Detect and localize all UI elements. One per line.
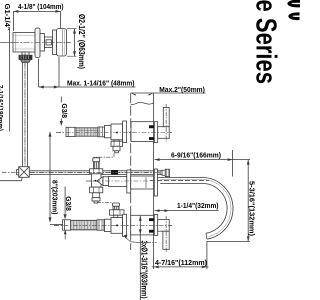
bottom handle stem <box>158 220 170 232</box>
valve V1 horizontal centerline <box>0 41 72 43</box>
middle tee lower hex nut <box>90 187 103 193</box>
middle valve centerline <box>86 180 150 182</box>
dimension 8in (203mm) vertical <box>49 131 64 224</box>
cut-off glyph mark 2 (top right corner) <box>288 12 299 20</box>
bottom valve top fitting <box>110 203 125 218</box>
valve V1 body (wall-mount bath valve, side view) <box>13 33 35 53</box>
middle tee lower nut <box>92 198 100 201</box>
middle tee lower block <box>93 193 100 198</box>
middle valve flange <box>127 170 131 193</box>
bottom handle bar <box>163 231 169 249</box>
supply pipe from valve V1 going down <box>23 52 28 167</box>
route centerline from top valve to tee <box>94 153 115 157</box>
top assembly centerline <box>56 132 172 134</box>
MIDDLE TEE cap <box>93 158 100 169</box>
label G3/8 (top assembly) with leader <box>60 97 69 127</box>
valve V1 second disc <box>53 30 57 55</box>
top handle stem <box>158 127 170 139</box>
svg-text:4-7/16"(112mm): 4-7/16"(112mm) <box>155 258 207 267</box>
route centerline tee to bottom valve <box>97 202 113 204</box>
supply pipe centerline <box>24 54 26 166</box>
valve V1 knob cap <box>57 29 67 57</box>
middle tee tail tip <box>94 201 98 203</box>
top in-wall housing <box>131 122 154 142</box>
leader line from G1-1/4 down to supply elbow <box>9 28 11 132</box>
valve V1 collar <box>40 34 45 52</box>
dimension 6-9/16in(166mm) <box>155 150 250 177</box>
bottom housing socket bands <box>149 218 155 221</box>
valve V1 mid section <box>45 37 53 48</box>
dimension Max.2in(50mm) wall thickness <box>131 85 206 96</box>
black pipe coupling <box>111 170 118 175</box>
leader to mounting holes <box>126 237 140 242</box>
bottom handle centerline <box>165 216 167 253</box>
valve V1 flange disc <box>35 28 40 58</box>
small leader below bottom hose <box>64 230 66 240</box>
middle valve adapter <box>103 177 109 186</box>
spout centerline <box>150 180 209 182</box>
supply elbow fitting with cross <box>17 167 30 178</box>
horizontal supply pipe centerline <box>30 172 160 174</box>
middle valve centerline <box>86 180 150 182</box>
svg-text:4-1/8" (104mm): 4-1/8" (104mm) <box>18 2 64 11</box>
dimension 5-3/16in(132mm) vertical <box>207 160 257 242</box>
cut-off glyph mark 1 (top right corner) <box>287 0 300 7</box>
wall break wave <box>131 102 154 104</box>
bottom hose end cap <box>63 220 71 230</box>
dimension Max. 1-14/16in (48mm) <box>39 57 136 89</box>
bottom assembly centerline <box>54 224 172 226</box>
top handle bar <box>163 108 169 127</box>
dimension 4-7/16in(112mm) <box>152 241 209 269</box>
label Dia 2-1/2in (63mm) rotated <box>77 14 86 69</box>
wall right line <box>153 93 155 269</box>
svg-text:e Series: e Series <box>250 0 282 84</box>
label 7-1/16in(180mm) rotated at left edge (cut off) <box>0 85 5 131</box>
svg-text:G3/8: G3/8 <box>64 196 73 211</box>
middle valve cylinder <box>109 176 127 186</box>
bottom trim escutcheon <box>154 214 157 235</box>
spout curved tube (C shape) <box>202 178 233 240</box>
bottom braided hose <box>71 220 97 230</box>
bottom hex adapter <box>97 220 104 230</box>
bottom valve body <box>111 218 123 234</box>
TOP ASSEMBLY centerline <box>56 132 172 134</box>
middle tee hex nut <box>90 169 103 174</box>
top handle centerline <box>165 104 167 142</box>
middle tee body <box>92 174 102 187</box>
top hex adapter <box>98 127 105 137</box>
svg-text:7-1/16"(180mm): 7-1/16"(180mm) <box>0 85 5 131</box>
bottom valve cylinder <box>105 219 112 231</box>
top handle centerline <box>165 104 167 142</box>
middle in-wall housing <box>131 176 154 189</box>
bottom valve flange <box>123 214 127 236</box>
BOTTOM ASSEMBLY centerline <box>54 224 172 226</box>
label G3/8 (bottom assembly) with leader <box>64 187 74 220</box>
svg-text:6-9/16"(166mm): 6-9/16"(166mm) <box>171 150 221 159</box>
top valve flange <box>123 121 127 143</box>
svg-text:5-3/16"(132mm): 5-3/16"(132mm) <box>248 181 257 236</box>
svg-text:G3/8: G3/8 <box>60 104 69 119</box>
dimension 4-1/8in (104mm) <box>13 2 63 31</box>
svg-text:G1-1/4": G1-1/4" <box>3 4 12 31</box>
top braided hose <box>75 128 98 136</box>
svg-text:3xØ1-3/16"(Ø30mm): 3xØ1-3/16"(Ø30mm) <box>139 241 148 299</box>
dimension 3x Dia1-3/16in (30mm) vertical line <box>139 216 148 300</box>
elbow centerline stub to left edge <box>2 172 19 174</box>
top hose end cap <box>66 127 75 136</box>
svg-text:Ø2-1/2" (Ø63mm): Ø2-1/2" (Ø63mm) <box>77 14 86 69</box>
title "e Series" rotated <box>250 0 282 84</box>
centerlines overlay <box>2 42 209 252</box>
bottom in-wall housing <box>131 215 154 235</box>
top valve body <box>111 124 123 140</box>
valve V1 bottom neck <box>22 52 29 55</box>
valve V1 centerline <box>2 41 70 43</box>
dimension 1-1/4in(32mm) <box>155 201 219 212</box>
top valve cylinder <box>105 125 112 137</box>
svg-text:1-1/4"(32mm): 1-1/4"(32mm) <box>177 201 219 210</box>
spout escutcheon <box>154 169 157 196</box>
label G1-1/4 rotated <box>3 4 12 31</box>
spout centerline <box>150 180 209 182</box>
top housing socket bands <box>149 125 155 128</box>
leader L-line to elbow <box>0 177 22 180</box>
spout feed knob above <box>158 169 170 176</box>
knob diameter dimension line <box>67 29 77 57</box>
wall left line <box>130 93 132 250</box>
middle tee outlet cone <box>97 177 103 186</box>
spout outlet face <box>205 233 208 239</box>
svg-text:8"(203mm): 8"(203mm) <box>51 180 60 215</box>
spout tube straight section <box>158 177 203 179</box>
valve V1 tail taper <box>21 60 31 63</box>
top trim escutcheon <box>154 122 157 143</box>
horizontal supply pipe to spout feed <box>29 171 160 175</box>
valve V1 hatched nut <box>19 55 32 59</box>
svg-text:Max.2"(50mm): Max.2"(50mm) <box>159 85 205 94</box>
svg-text:Max. 1-14/16" (48mm): Max. 1-14/16" (48mm) <box>67 78 135 87</box>
top valve drop tee <box>111 140 123 153</box>
bottom handle centerline <box>165 216 167 253</box>
